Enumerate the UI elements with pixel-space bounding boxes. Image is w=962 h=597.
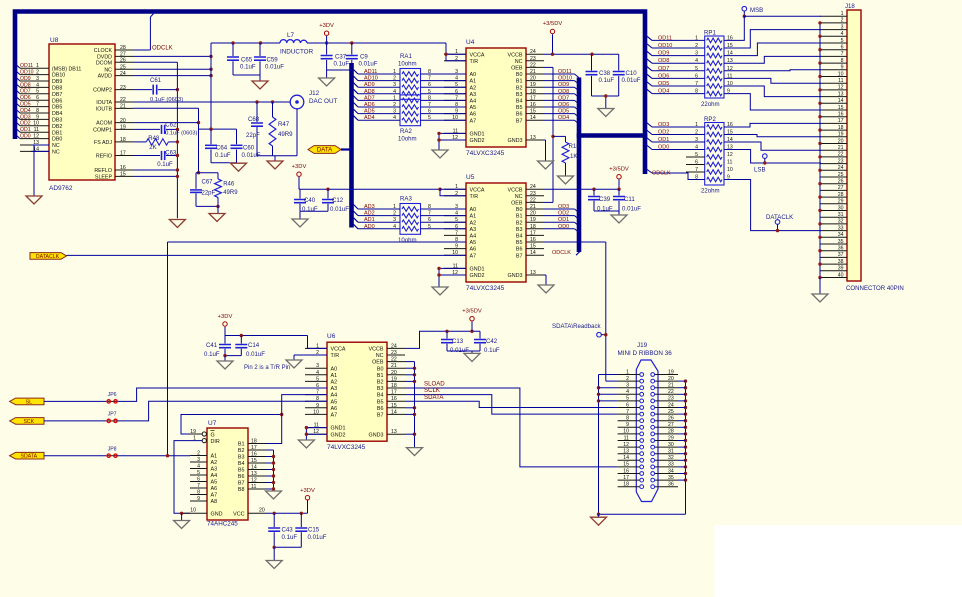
svg-text:9: 9 [455, 244, 458, 250]
J18 pin 38 [820, 263, 847, 265]
svg-text:15: 15 [120, 172, 126, 178]
wire C43 C15 tie [274, 546, 301, 548]
wire C40 C12 tie [300, 210, 328, 212]
svg-text:49R9: 49R9 [223, 190, 238, 196]
wire L7 to VCCA rail [307, 42, 446, 44]
capacitor C67 22pF [195, 173, 197, 189]
svg-text:OD4: OD4 [20, 108, 31, 114]
U8 pin 18 FS ADJ [115, 141, 133, 143]
wire U5 GND3 [544, 274, 546, 276]
svg-text:2: 2 [841, 18, 844, 24]
U4 pin 20 B1 [526, 80, 544, 82]
svg-text:B5: B5 [516, 240, 523, 246]
svg-text:18: 18 [623, 482, 629, 488]
svg-text:2: 2 [695, 130, 698, 136]
J19 pin 19 [655, 374, 678, 376]
svg-text:20: 20 [120, 118, 126, 124]
svg-text:B2: B2 [377, 380, 384, 386]
svg-text:ACOM: ACOM [96, 121, 112, 127]
U5 pin 2 T/R [444, 195, 466, 197]
U4 pin 11 GND1 [444, 132, 466, 134]
svg-text:1: 1 [695, 35, 698, 41]
J18 pin 29 [820, 203, 847, 205]
svg-text:VCCA: VCCA [331, 347, 346, 353]
wire RP2.16 to J18 pin17 [724, 123, 821, 127]
svg-text:C63: C63 [165, 150, 177, 156]
wire bus tap AD0 [354, 224, 359, 229]
svg-text:6: 6 [626, 402, 629, 408]
svg-text:C64: C64 [216, 145, 228, 152]
wire bus tap AD11 [354, 70, 359, 75]
svg-text:10: 10 [838, 71, 844, 77]
svg-text:VCCB: VCCB [369, 347, 384, 353]
svg-text:4: 4 [393, 224, 396, 230]
svg-text:15: 15 [251, 458, 257, 464]
svg-text:B5: B5 [516, 105, 523, 111]
svg-text:AD6: AD6 [364, 102, 375, 108]
wire +3DV rail to U6 VCCA [225, 335, 308, 337]
U5 pin 18 B3 [526, 228, 544, 230]
svg-text:DB8: DB8 [52, 86, 62, 92]
svg-text:23: 23 [391, 350, 397, 356]
svg-text:10: 10 [623, 429, 629, 435]
wire OD6 to bus [544, 106, 575, 108]
wire bus tap OD11 to RP1 [646, 35, 652, 40]
wire AVDD [133, 75, 211, 77]
wire bus tap ODCLK to RP2 [645, 168, 652, 173]
svg-text:29: 29 [838, 199, 844, 205]
U4 pin 6 A3 [444, 93, 466, 95]
svg-text:20: 20 [530, 76, 536, 82]
svg-text:U6: U6 [327, 333, 336, 340]
J18 pin 12 [820, 89, 847, 91]
svg-text:1: 1 [626, 369, 629, 375]
svg-text:T/R: T/R [331, 353, 340, 359]
U5 pin 6 A3 [444, 228, 466, 230]
svg-text:OD1: OD1 [658, 137, 669, 143]
svg-text:B4: B4 [516, 234, 523, 240]
U5 pin 3 A0 [444, 208, 466, 210]
J19 pin 11 [618, 440, 640, 442]
svg-text:CONNECTOR 40PIN: CONNECTOR 40PIN [846, 285, 904, 292]
U5 pin 12 GND2 [444, 274, 466, 276]
svg-text:6: 6 [695, 160, 698, 166]
svg-text:7: 7 [695, 81, 698, 87]
svg-text:AD3: AD3 [364, 204, 375, 210]
svg-text:RA2: RA2 [400, 128, 412, 135]
wire bus tap AD8 [354, 89, 359, 94]
U5 pin 19 B2 [526, 221, 544, 223]
wire RP2.13 to J18 pin23 via LSB [724, 150, 821, 164]
resistor R48 2K [146, 139, 168, 145]
wire RP1.15 to J18 pin3 [724, 30, 821, 48]
svg-text:OD10: OD10 [658, 43, 672, 49]
U8 pin 26 DCOM [115, 61, 133, 63]
svg-text:AD0: AD0 [364, 224, 375, 230]
white corner area [715, 525, 962, 597]
svg-text:25: 25 [120, 64, 126, 70]
svg-text:13: 13 [623, 449, 629, 455]
J18 pin 18 [820, 129, 847, 131]
svg-text:A0: A0 [470, 207, 477, 213]
svg-text:B3: B3 [516, 92, 523, 98]
wire AD11 to U4 [421, 73, 467, 75]
svg-text:3: 3 [197, 457, 200, 463]
J19 pin 30 [655, 446, 678, 448]
svg-text:B1: B1 [377, 373, 384, 379]
resistor network RP1 22ohm [705, 36, 724, 98]
testpoint MSB [742, 6, 747, 11]
ground U5 GND3 [538, 285, 554, 293]
svg-text:C13: C13 [452, 338, 464, 345]
power +3DV at C37 [324, 31, 328, 35]
svg-text:11: 11 [251, 484, 256, 490]
wire J18 even pin ground rail [819, 23, 821, 278]
U6 pin 10 A7 [305, 413, 327, 415]
svg-text:3: 3 [316, 363, 319, 369]
svg-text:18: 18 [391, 383, 397, 389]
wire AD9 to U4 [421, 86, 467, 88]
svg-text:ODCLK: ODCLK [152, 45, 173, 51]
svg-text:17: 17 [120, 151, 126, 157]
svg-text:40: 40 [838, 272, 844, 278]
svg-text:B1: B1 [516, 79, 523, 85]
U4 pin 17 B4 [526, 99, 544, 101]
svg-text:DATACLK: DATACLK [36, 254, 60, 260]
wire AD4 to U4 [421, 119, 467, 121]
svg-text:OD0: OD0 [20, 134, 31, 140]
svg-text:+3/5DV: +3/5DV [609, 167, 629, 173]
svg-text:9: 9 [197, 496, 200, 502]
J18 pin 23 [820, 163, 847, 165]
svg-text:B0: B0 [516, 72, 523, 78]
svg-text:19: 19 [120, 125, 126, 131]
svg-text:+3DV: +3DV [300, 488, 315, 494]
svg-text:9: 9 [36, 114, 39, 120]
svg-text:C39: C39 [599, 196, 611, 203]
U7 pin 16 B3 [248, 456, 265, 458]
wire RP1.16 to J18 pin1 [724, 16, 821, 40]
capacitor C62 [161, 125, 163, 134]
wire C64 C60 top rail [199, 128, 237, 130]
svg-text:13: 13 [530, 135, 536, 141]
wire SL to JP6 [44, 400, 106, 402]
svg-text:6: 6 [428, 82, 431, 88]
svg-text:28: 28 [120, 45, 126, 51]
J18 pin 31 [820, 216, 847, 218]
svg-text:17: 17 [530, 230, 536, 236]
svg-text:B3: B3 [516, 227, 523, 233]
J19 pin 10 [618, 433, 640, 435]
svg-text:8: 8 [695, 89, 698, 95]
wire RP2.15 to J18 pin19 [724, 135, 821, 137]
svg-text:IOUTA: IOUTA [96, 100, 112, 106]
svg-text:FS ADJ: FS ADJ [94, 140, 112, 146]
svg-text:7: 7 [695, 167, 698, 173]
svg-text:15: 15 [530, 109, 536, 115]
U7 pin 5 A4 [190, 474, 207, 476]
svg-text:SDATA: SDATA [21, 454, 38, 460]
svg-text:20: 20 [530, 211, 536, 217]
J18 pin 34 [820, 236, 847, 238]
wire AD5 to U4 [421, 113, 467, 115]
wire SDATA riser [167, 242, 169, 456]
U7 pin 17 B2 [248, 449, 265, 451]
svg-text:GND1: GND1 [470, 267, 485, 273]
svg-text:A6: A6 [470, 247, 477, 253]
svg-text:OD7: OD7 [658, 66, 669, 72]
U6 pin 9 A6 [305, 407, 327, 409]
svg-text:OD4: OD4 [658, 89, 669, 95]
svg-text:A8: A8 [211, 499, 218, 505]
svg-text:22: 22 [838, 152, 844, 158]
J18 pin 19 [820, 136, 847, 138]
svg-text:SDATA\Readback: SDATA\Readback [552, 323, 601, 330]
svg-text:1: 1 [695, 122, 698, 128]
jumper JP6 [106, 400, 109, 402]
U7 pin 4 A3 [190, 468, 207, 470]
svg-text:33: 33 [668, 462, 674, 468]
wire U6 GND1 GND2 [306, 427, 327, 429]
U6 pin 15 B6 [387, 407, 405, 409]
U4 pin 23 NC [526, 60, 544, 62]
U4 pin 14 B7 [526, 119, 544, 121]
svg-text:11: 11 [838, 78, 843, 84]
U4 pin 3 A0 [444, 73, 466, 75]
svg-text:17: 17 [530, 95, 536, 101]
wire bus tap OD1 [14, 126, 21, 132]
svg-text:14: 14 [838, 98, 844, 104]
svg-text:19: 19 [668, 369, 674, 375]
svg-text:74LVXC3245: 74LVXC3245 [466, 285, 505, 292]
wire OD4 to bus [544, 119, 575, 121]
capacitor C61 [152, 85, 154, 95]
svg-text:L7: L7 [287, 32, 295, 39]
wire J19 left ground rail [598, 375, 600, 515]
J18 pin 30 [820, 210, 847, 212]
U4 pin 2 T/R [444, 60, 466, 62]
U8 pin 10 DB2 [20, 125, 49, 127]
J19 pin 16 [618, 473, 640, 475]
U6 pin 17 B4 [387, 394, 405, 396]
J18 pin 3 [820, 29, 847, 31]
U8 pin 17 REFIO [115, 155, 133, 157]
svg-text:23: 23 [120, 85, 126, 91]
wire REFIO to C63 [133, 155, 160, 157]
wire ACOM [133, 122, 199, 124]
svg-text:GND2: GND2 [470, 273, 485, 279]
wire RP1.11 to J18 pin11 [724, 78, 821, 83]
power +3/5DV at U6 [470, 317, 474, 321]
svg-text:OD10: OD10 [20, 70, 34, 76]
capacitor C60 0.01uF [236, 129, 238, 144]
svg-text:12: 12 [33, 134, 39, 140]
svg-text:17: 17 [251, 445, 257, 451]
svg-text:B2: B2 [516, 85, 523, 91]
wire OD8 to bus [544, 93, 575, 95]
wire J19 right rail [685, 381, 687, 514]
svg-text:74AHC245: 74AHC245 [207, 521, 238, 528]
wire bus tap OD4 [14, 107, 21, 113]
svg-text:C11: C11 [624, 196, 635, 203]
svg-text:20: 20 [391, 370, 397, 376]
svg-text:DB0: DB0 [52, 137, 62, 143]
wire bus tap OD6 to RP1 [646, 73, 652, 78]
J19 pin 31 [655, 453, 678, 455]
svg-text:VCC: VCC [233, 512, 244, 518]
capacitor C9 0.01uF [351, 43, 353, 55]
J19 pin 2 [618, 380, 640, 382]
ground U7 GND/DIR [180, 512, 183, 515]
resistor R18 1K [553, 135, 566, 137]
U7 pin 8 A7 [190, 494, 207, 496]
U5 pin 10 A7 [444, 254, 466, 256]
U8 pin 21 IOUTB [115, 107, 133, 109]
RP2 unused pin 6 [686, 164, 705, 166]
ground U8 NC pins [26, 196, 42, 204]
U8 pin 28 CLOCK [115, 49, 133, 51]
svg-text:U7: U7 [208, 420, 217, 427]
svg-text:24: 24 [120, 71, 126, 77]
svg-text:7: 7 [197, 483, 200, 489]
svg-text:GND1: GND1 [470, 132, 485, 138]
svg-text:9: 9 [841, 65, 844, 71]
J19 pin 14 [618, 459, 640, 461]
testpoint SDATA Readback [597, 332, 602, 337]
svg-text:5: 5 [841, 38, 844, 44]
svg-text:NC: NC [52, 150, 60, 156]
svg-text:3: 3 [393, 217, 396, 223]
svg-text:OD6: OD6 [20, 95, 31, 101]
U5 pin 8 A5 [444, 241, 466, 243]
U7 pin 13 B6 [248, 475, 265, 477]
wire bus tap OD2 to RP2 [646, 130, 652, 135]
svg-text:19: 19 [530, 217, 536, 223]
svg-text:B3: B3 [377, 386, 384, 392]
svg-text:OD1: OD1 [20, 127, 31, 133]
svg-text:REFLO: REFLO [94, 168, 112, 174]
svg-text:22: 22 [530, 62, 536, 68]
wire +3DV rail to U5 VCCA [300, 188, 440, 190]
svg-text:C37: C37 [335, 53, 347, 60]
capacitor C38 0.1uF [591, 54, 593, 70]
svg-text:0.1uF: 0.1uF [157, 162, 173, 168]
svg-text:DB7: DB7 [52, 92, 62, 98]
svg-text:1: 1 [36, 63, 39, 69]
wire bus tap OD5 [14, 101, 21, 107]
svg-text:6: 6 [428, 217, 431, 223]
svg-text:17: 17 [623, 475, 629, 481]
svg-text:21: 21 [530, 69, 536, 75]
J18 pin 4 [820, 35, 847, 37]
U5 pin 1 VCCA [444, 188, 466, 190]
J18 pin 25 [820, 176, 847, 178]
U8 pin 24 AVDD [115, 75, 133, 77]
IC U8 AD9762 body [49, 44, 115, 180]
U7 pin 1 DIR [202, 439, 206, 443]
J18 pin 9 [820, 69, 847, 71]
svg-text:10: 10 [33, 121, 39, 127]
svg-text:8: 8 [428, 69, 431, 75]
ground R46 [209, 214, 225, 222]
svg-text:26: 26 [838, 179, 844, 185]
svg-text:RP1: RP1 [704, 30, 716, 37]
svg-text:25: 25 [838, 172, 844, 178]
U4 pin 22 OEB [526, 66, 544, 68]
U8 pin 14 NC [20, 150, 49, 152]
svg-text:OD0: OD0 [658, 145, 669, 151]
J18 pin 35 [820, 243, 847, 245]
svg-text:19: 19 [391, 376, 397, 382]
svg-text:74LVXC3245: 74LVXC3245 [327, 444, 366, 451]
svg-text:C61: C61 [150, 78, 162, 84]
wire OD5 to bus [544, 113, 575, 115]
svg-text:19: 19 [530, 82, 536, 88]
capacitor C37 0.1uF [326, 43, 328, 55]
svg-text:C10: C10 [626, 70, 638, 77]
svg-text:30: 30 [838, 205, 844, 211]
svg-text:13: 13 [530, 270, 536, 276]
svg-text:20: 20 [259, 508, 265, 514]
svg-text:0.1uF: 0.1uF [215, 152, 231, 159]
U6 pin 2 T/R [305, 354, 327, 356]
U4 pin 24 VCCB [526, 53, 544, 55]
svg-text:7: 7 [428, 76, 431, 82]
svg-text:4: 4 [36, 82, 39, 88]
ground U6 GND1/GND2 [298, 440, 314, 448]
J19 pin 36 [655, 486, 678, 488]
U7 pin 3 A2 [190, 461, 207, 463]
svg-text:C14: C14 [248, 342, 260, 349]
svg-text:24: 24 [530, 184, 536, 190]
U8 pin 11 DB1 [20, 131, 49, 133]
svg-text:27: 27 [668, 422, 674, 428]
svg-text:14: 14 [391, 409, 397, 415]
wire bus tap OD1 to RP2 [646, 137, 652, 142]
svg-text:1: 1 [841, 11, 844, 17]
svg-text:DB9: DB9 [52, 79, 62, 85]
svg-text:C42: C42 [486, 338, 498, 345]
svg-text:4: 4 [197, 464, 200, 470]
svg-text:21: 21 [668, 383, 674, 389]
svg-text:DB5: DB5 [52, 105, 62, 111]
J19 pin 9 [618, 426, 640, 428]
svg-text:A6: A6 [331, 406, 338, 412]
wire OD3 to bus at U5 [544, 208, 575, 210]
capacitor C12 0.01uF [327, 189, 329, 198]
wire bus tap OD0 [14, 133, 21, 139]
svg-text:3: 3 [841, 24, 844, 30]
svg-text:GND3: GND3 [508, 138, 523, 144]
U4 pin 16 B5 [526, 106, 544, 108]
ground DCOM cluster [169, 220, 185, 228]
wire C37 C9 tie [327, 69, 352, 71]
U5 pin 5 A2 [444, 221, 466, 223]
svg-text:R48: R48 [148, 136, 160, 142]
svg-text:20: 20 [838, 138, 844, 144]
svg-text:GND2: GND2 [470, 138, 485, 144]
svg-text:10ohm: 10ohm [398, 237, 417, 244]
svg-text:23: 23 [530, 56, 536, 62]
U5 pin 16 B5 [526, 241, 544, 243]
capacitor C43 0.1uF [273, 513, 275, 527]
wire bus tap OD10 to RP1 [646, 43, 652, 48]
U5 pin 20 B1 [526, 215, 544, 217]
svg-text:JP7: JP7 [108, 412, 117, 418]
svg-text:30: 30 [668, 442, 674, 448]
svg-text:OD9: OD9 [20, 76, 31, 82]
wire U4 VCCB rail [544, 53, 619, 55]
